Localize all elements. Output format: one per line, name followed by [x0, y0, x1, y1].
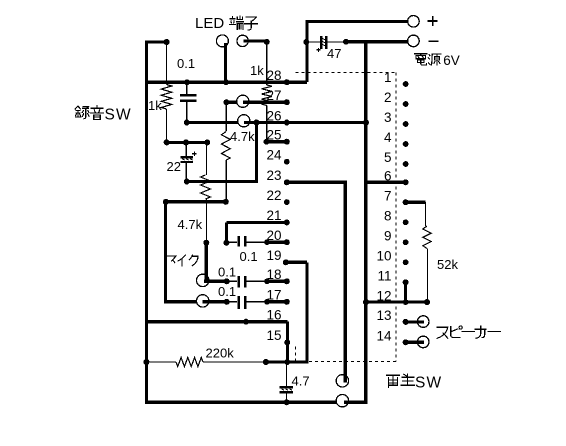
label 録音SW	[75, 106, 132, 124]
label 電源6V	[415, 53, 460, 68]
wire vertical x307 pin19 down	[305, 262, 308, 362]
wire thin C4 to pin20	[246, 241, 266, 243]
svg-text:27: 27	[266, 88, 281, 103]
pin 15	[266, 328, 290, 345]
wire node horizontal y202	[164, 200, 226, 203]
node junction dot top-left	[164, 39, 170, 45]
wire horizontal to - terminal	[346, 40, 408, 43]
node dot C7 bottom on loop	[284, 399, 290, 405]
terminal playback switch lower circle	[336, 395, 348, 407]
capacitor C4 0.1 plates	[237, 236, 239, 247]
pin 28	[266, 68, 289, 85]
wire bottom right segment into rail	[344, 401, 366, 404]
svg-text:22: 22	[167, 159, 181, 174]
wire pin13 to speaker	[407, 320, 424, 323]
capacitor C3 22uF plates polarized	[180, 156, 193, 158]
svg-text:1: 1	[384, 70, 392, 85]
svg-text:0.1: 0.1	[240, 249, 258, 264]
wire pin12 horizontal from rail	[364, 301, 427, 304]
svg-text:0.1: 0.1	[177, 56, 195, 71]
resistor R2 1k lead from top wire	[166, 42, 168, 85]
capacitor C6 0.1 plates	[237, 296, 239, 309]
terminal power minus circle	[408, 35, 420, 47]
wire thin y362 to 220k	[203, 361, 266, 363]
wire thin from capacitor C1 right	[327, 41, 346, 43]
svg-text:220k: 220k	[206, 346, 235, 361]
wire playback branch vertical x345.3	[344, 182, 347, 382]
terminal playback switch upper circle	[336, 375, 348, 387]
wire vertical thick from R4 node down to mic upper line	[205, 243, 208, 283]
svg-text:SW: SW	[415, 375, 442, 392]
pin 22	[266, 188, 289, 205]
resistor R6 52k lead top	[425, 202, 427, 226]
resistor R4 4.7k zigzag	[201, 175, 211, 199]
wire node horizontal y142	[167, 141, 208, 144]
svg-text:24: 24	[266, 148, 282, 163]
resistor R1 1k lead from LED node	[266, 42, 268, 85]
capacitor C2 lead bottom	[186, 102, 188, 123]
node junction dot on bus below LED	[223, 79, 229, 85]
wire bottom loop horizontal y402	[145, 401, 348, 404]
capacitor C2 0.1 plates	[180, 94, 197, 96]
node dot left y142	[164, 139, 170, 145]
node junction dot on bus at C2	[184, 79, 190, 85]
node dot middle y142 (C3 top)	[183, 139, 189, 145]
capacitor C3 22uF lead top	[185, 142, 187, 156]
node dot y362 left	[263, 359, 269, 365]
resistor R2 lead down	[166, 109, 168, 142]
svg-text:13: 13	[376, 308, 391, 323]
capacitor C2 0.1 lead top	[186, 82, 188, 94]
node dot on left rail at 220k	[143, 359, 149, 365]
wire top-left horizontal to 1k R2 node	[145, 40, 167, 43]
wire positive supply bus horizontal y82	[145, 81, 307, 84]
resistor R5 lead to left rail	[146, 361, 176, 363]
node junction dot pin26 branch	[253, 120, 259, 126]
wire pin19 horizontal to x307	[286, 261, 307, 264]
svg-text:15: 15	[266, 328, 281, 343]
svg-text:21: 21	[266, 208, 281, 223]
pin 11	[377, 269, 408, 286]
label 再生SW	[386, 374, 442, 391]
svg-text:10: 10	[376, 249, 391, 264]
node dot pin12 end (52k bottom)	[424, 299, 430, 305]
svg-text:22: 22	[266, 188, 281, 203]
svg-text:1k: 1k	[250, 63, 264, 78]
wire pin14 to speaker	[407, 341, 424, 344]
pin 8	[384, 209, 409, 226]
pin 18	[264, 267, 290, 284]
wire pin11-pin12 connector vertical	[404, 282, 407, 302]
svg-text:52k: 52k	[437, 257, 458, 272]
wire left rail vertical	[145, 40, 148, 404]
label スピーカー	[437, 326, 500, 338]
wire vertical x165.5 down to mic lower line	[164, 202, 167, 302]
wire mic upper horizontal y281.3	[204, 280, 227, 283]
resistor R5 220k zigzag horizontal	[176, 358, 203, 367]
pin 27	[266, 88, 289, 105]
terminal speaker lower circle	[417, 336, 429, 348]
wire pin23 horizontal to playback branch corner	[286, 181, 347, 184]
resistor R4 lead down to mic node	[205, 199, 207, 243]
wire vertical branch x256.4 up to pin26 line	[255, 122, 258, 181]
node junction dot at 47uF left	[303, 39, 309, 45]
svg-text:4: 4	[384, 130, 392, 145]
wire pin6 horizontal from minus rail	[364, 181, 405, 184]
wire mic upper vertical overlay	[205, 268, 208, 282]
pin 17	[264, 288, 290, 305]
node junction dot pin26 line at minus rail	[363, 120, 369, 126]
terminal microphone lower circle	[197, 295, 209, 307]
terminal LED left circle	[216, 35, 228, 47]
capacitor C1 47uF polarized plates	[320, 36, 322, 49]
pin 20	[264, 228, 290, 245]
node dot right y142 (R3 top)	[204, 139, 210, 145]
svg-text:12: 12	[376, 288, 391, 303]
wire pin27 line right segment	[243, 101, 287, 104]
svg-text:LED: LED	[195, 15, 224, 32]
svg-text:4.7: 4.7	[292, 374, 310, 389]
wire vertical x307 from bus up to + terminal	[305, 20, 308, 82]
terminal speaker upper circle	[417, 316, 429, 328]
node junction dot R3 top on pin27 line	[223, 99, 229, 105]
wire top horizontal to + terminal	[305, 20, 407, 23]
node junction dot C2 bottom on pin26 line	[184, 120, 190, 126]
label C1 polarity plus	[317, 48, 321, 52]
wire thin to C4	[226, 241, 237, 243]
svg-text:8: 8	[384, 209, 392, 224]
svg-text:2: 2	[384, 90, 392, 105]
wire thin C6 to pin17	[246, 301, 266, 303]
IC dashed outline box	[296, 73, 396, 362]
svg-text:7: 7	[384, 188, 392, 203]
node dot on pin16 line	[243, 319, 249, 325]
pin 7	[384, 188, 409, 205]
svg-text:11: 11	[377, 269, 391, 284]
svg-text:SW: SW	[105, 107, 132, 124]
pin 24	[266, 148, 289, 165]
wire LED left terminal down to bus	[224, 43, 227, 82]
svg-text:28: 28	[266, 68, 281, 83]
wire pin21 branch vertical down	[225, 222, 228, 242]
pin 26	[266, 108, 289, 125]
svg-text:3: 3	[384, 110, 392, 125]
pin 19	[266, 248, 288, 265]
node junction dot C3 bottom	[184, 179, 190, 185]
node dot right y202 (R3 bottom)	[223, 199, 229, 205]
svg-text:0.1: 0.1	[218, 265, 236, 280]
resistor R1 1k zigzag	[262, 85, 272, 106]
svg-text:4.7k: 4.7k	[178, 217, 203, 232]
node junction dot R4 bottom	[203, 240, 209, 246]
wire horizontal y181.5 from C3 to branch	[187, 180, 258, 183]
pin 9	[384, 229, 409, 246]
svg-text:1k: 1k	[148, 98, 162, 113]
svg-text:6V: 6V	[443, 53, 460, 68]
node junction dot LED-1k	[264, 39, 270, 45]
label minus sign	[429, 40, 439, 42]
wire mic lower horizontal y301.8	[164, 300, 227, 303]
resistor R3 4.7k zigzag	[221, 132, 230, 161]
node junction dot pin12 line at minus rail	[363, 299, 369, 305]
svg-text:9: 9	[384, 229, 392, 244]
svg-text:6: 6	[384, 169, 392, 184]
capacitor C7 4.7 plates polarized	[280, 386, 294, 388]
pin 14	[376, 329, 408, 346]
label マイク	[166, 255, 198, 266]
resistor R3 lead down to node y202	[225, 160, 227, 202]
svg-text:5: 5	[384, 150, 392, 165]
svg-text:47: 47	[327, 46, 341, 61]
label C3 polarity plus	[192, 152, 196, 156]
resistor R6 52k zigzag	[423, 226, 431, 249]
wire horizontal y362 thick	[266, 360, 309, 363]
wire thin C5 to pin18	[246, 280, 266, 282]
node dot mic lower	[224, 299, 230, 305]
pin 21	[266, 208, 289, 225]
pin 12	[376, 288, 408, 305]
svg-text:23: 23	[266, 168, 281, 183]
svg-text:19: 19	[266, 248, 281, 263]
pin 3	[384, 110, 409, 127]
wire pin16 line horizontal y321.7	[145, 320, 288, 323]
capacitor C7 4.7 lead top	[285, 362, 287, 386]
wire minus rail vertical x365.8	[364, 42, 367, 404]
capacitor C7 lead bottom	[285, 393, 287, 402]
capacitor C5 0.1 plates	[237, 276, 239, 288]
node dot C4 left	[223, 240, 229, 246]
wire pin26 line right segment to minus rail	[244, 121, 366, 124]
resistor R1 lead down to pin25	[266, 106, 268, 142]
terminal recording switch upper circle	[237, 95, 249, 107]
pin 13	[376, 308, 408, 325]
wire pin16-15 bracket vertical	[286, 322, 289, 362]
pin 4	[384, 130, 409, 147]
node dot mic upper	[224, 278, 230, 284]
resistor R3 4.7k lead from pin27 line	[225, 102, 227, 131]
wire overlay mic lower right segment	[203, 300, 227, 303]
wire thin to capacitor C1 left	[307, 41, 320, 43]
wire from LED right terminal to 1k R1	[244, 39, 267, 42]
svg-text:4.7k: 4.7k	[230, 129, 255, 144]
svg-text:14: 14	[376, 329, 392, 344]
svg-text:26: 26	[266, 108, 281, 123]
wire pin27 line left segment	[226, 101, 237, 104]
pin 25	[264, 128, 290, 145]
wire pin21 line horizontal	[226, 221, 286, 224]
pin 23	[266, 168, 289, 185]
label LED端子 kanji	[230, 16, 258, 30]
pin 5	[384, 150, 409, 167]
wire thin mic upper to C5	[227, 280, 238, 282]
wire pin7 horizontal	[407, 201, 426, 204]
svg-text:0.1: 0.1	[218, 284, 236, 299]
node dot y362 at 4.7uF	[284, 359, 290, 365]
terminal microphone upper circle	[197, 274, 209, 286]
resistor R2 1k zigzag	[161, 85, 171, 110]
label plus sign	[428, 16, 438, 26]
wire pin26 line left segment	[187, 121, 239, 124]
terminal LED right circle	[237, 35, 248, 46]
pin 2	[384, 90, 409, 107]
terminal recording switch lower circle	[238, 115, 250, 127]
pin 1	[384, 70, 409, 87]
pin 16	[266, 308, 281, 323]
wire overlay into LED left circle	[224, 43, 227, 48]
resistor R4 4.7k lead from y142 node	[205, 142, 207, 175]
svg-text:16: 16	[266, 308, 281, 323]
node junction dot at 47uF right	[343, 39, 349, 45]
terminal power plus circle	[408, 15, 420, 27]
wire thin mic lower to C6	[227, 301, 238, 303]
pin 6	[384, 169, 409, 186]
capacitor C3 lead bottom	[185, 163, 187, 182]
node dot left y202	[163, 199, 169, 205]
pin 10	[376, 249, 408, 266]
resistor R6 lead down to pin12 line	[427, 249, 429, 303]
